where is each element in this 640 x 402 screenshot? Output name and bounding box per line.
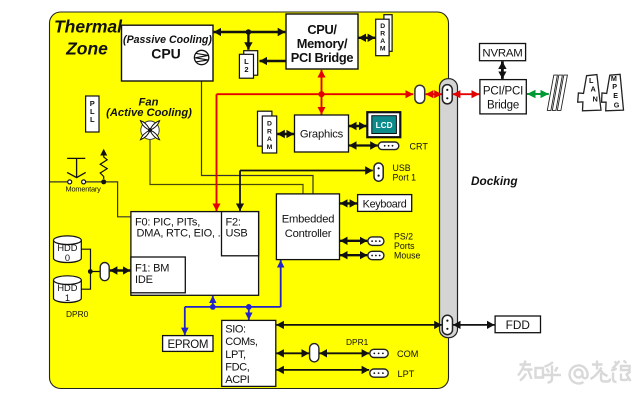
wire: blue down to SIO xyxy=(248,307,250,320)
svg-text:A: A xyxy=(267,136,272,143)
svg-text:DMA, RTC, EIO, ..: DMA, RTC, EIO, .. xyxy=(137,228,224,240)
LCD panel xyxy=(367,112,400,137)
wire: EC to PS/2 ports xyxy=(340,240,367,242)
DPR1 connector capsule xyxy=(310,344,319,362)
svg-text:PCI Bridge: PCI Bridge xyxy=(291,50,354,65)
thermal zone title xyxy=(54,17,123,59)
svg-text:Thermal: Thermal xyxy=(54,17,123,37)
wire: NVRAM to PCI/PCI bridge xyxy=(501,61,504,79)
wire: fan to embedded controller xyxy=(150,140,303,194)
wire: CPU to CPU/Memory bridge xyxy=(214,31,286,33)
fan symbol xyxy=(140,121,159,140)
svg-text:DPR0: DPR0 xyxy=(66,309,89,319)
wire: F2 to USB port xyxy=(239,171,241,211)
wire: blue F0 to ISA bus xyxy=(212,296,214,307)
svg-text:LPT,: LPT, xyxy=(225,349,246,361)
wire: EC to keyboard xyxy=(340,202,357,204)
wire: momentary switch to F0 xyxy=(50,182,130,217)
svg-text:Controller: Controller xyxy=(285,228,332,240)
wire: green PCI/PCI to slots xyxy=(527,93,549,95)
HDD 0 cylinder xyxy=(54,236,82,263)
node: switch junction xyxy=(101,179,106,184)
svg-text:D: D xyxy=(380,23,385,30)
CRT connector xyxy=(378,142,399,150)
svg-text:A: A xyxy=(591,84,597,93)
F0 fixed features box xyxy=(131,212,259,296)
svg-text:Mouse: Mouse xyxy=(394,251,421,261)
wire: DRAM to graphics xyxy=(277,133,294,135)
wire: DPR0 to F1 xyxy=(110,269,131,271)
wire: blue up to EC xyxy=(280,260,282,307)
svg-text:Bridge: Bridge xyxy=(487,99,519,111)
svg-text:PS/2: PS/2 xyxy=(394,231,413,241)
EPROM box xyxy=(163,336,213,352)
wire: red horizontal PCI bus xyxy=(217,93,414,95)
wire: HDD bus xyxy=(81,249,100,289)
wire: blue down to EPROM xyxy=(184,307,186,335)
red PCI oval connector xyxy=(415,85,425,103)
docking capsule bottom xyxy=(442,315,452,334)
wire: SIO to LPT xyxy=(276,369,369,371)
wire: graphics to CRT xyxy=(349,144,378,146)
node: red PCI junction xyxy=(318,91,324,97)
wire: EC to mouse xyxy=(340,254,367,256)
node: blue junction right xyxy=(246,304,252,310)
svg-text:FDC,: FDC, xyxy=(225,362,249,374)
svg-text:HDD: HDD xyxy=(57,243,77,253)
PCI/PCI bridge box xyxy=(480,80,526,114)
PS/2 label xyxy=(394,231,415,251)
USB port connector xyxy=(374,163,383,181)
NVRAM box xyxy=(480,44,526,61)
svg-text:PCI/PCI: PCI/PCI xyxy=(483,86,523,98)
thermal zone boundary xyxy=(50,12,449,389)
wire: red docking to PCI/PCI bridge xyxy=(453,93,480,95)
svg-text:ACPI: ACPI xyxy=(225,374,249,386)
wire: red bridge to graphics xyxy=(321,70,323,115)
USB port label xyxy=(393,163,417,183)
svg-text:M: M xyxy=(267,144,273,151)
svg-text:(Passive Cooling): (Passive Cooling) xyxy=(123,34,212,46)
svg-text:A: A xyxy=(380,38,385,45)
PLL box xyxy=(86,96,99,132)
wire: blue ISA bus horizontal xyxy=(185,306,281,308)
svg-text:(Active Cooling): (Active Cooling) xyxy=(106,107,192,119)
wire: CPU/Memory bridge to L2 xyxy=(260,60,286,62)
system DRAM boxes xyxy=(376,15,392,56)
svg-text:CRT: CRT xyxy=(410,141,429,151)
svg-text:D: D xyxy=(267,121,272,128)
svg-text:Keyboard: Keyboard xyxy=(363,198,407,210)
svg-text:Ports: Ports xyxy=(394,241,415,251)
wire: red down to F0 xyxy=(216,94,218,211)
PCI slots xyxy=(547,75,567,110)
svg-text:R: R xyxy=(380,31,385,38)
svg-text:NVRAM: NVRAM xyxy=(482,48,522,60)
svg-text:USB: USB xyxy=(226,228,248,240)
wire: graphics to LCD xyxy=(349,125,367,127)
svg-text:2: 2 xyxy=(244,65,248,74)
CPU/Memory/PCI bridge box xyxy=(286,14,358,69)
docking capsule top xyxy=(442,85,452,104)
svg-text:M: M xyxy=(380,46,386,53)
DPR0 connector capsule xyxy=(100,263,109,281)
svg-text:LCD: LCD xyxy=(376,121,393,130)
svg-text:SIO:: SIO: xyxy=(225,323,246,335)
F1 IDE box xyxy=(131,257,185,293)
svg-text:P: P xyxy=(612,82,617,91)
svg-text:Port 1: Port 1 xyxy=(393,173,417,183)
L2 cache boxes xyxy=(239,51,257,78)
MPEG card xyxy=(602,74,624,111)
svg-text:R: R xyxy=(267,129,272,136)
wire: SIO to DPR1 xyxy=(276,352,309,354)
graphics box xyxy=(295,115,349,152)
svg-text:CPU: CPU xyxy=(151,46,181,62)
SIO box xyxy=(222,320,276,386)
svg-text:Graphics: Graphics xyxy=(300,129,344,141)
PS/2 connector xyxy=(368,237,384,246)
svg-text:Zone: Zone xyxy=(65,39,108,59)
svg-text:Momentary: Momentary xyxy=(66,184,102,193)
wire: SIO to FDD via docking xyxy=(276,324,442,326)
svg-text:L: L xyxy=(90,115,95,124)
graphics DRAM boxes xyxy=(258,111,277,153)
svg-text:LPT: LPT xyxy=(398,369,415,379)
node: HDD junction xyxy=(88,269,93,274)
svg-text:Embedded: Embedded xyxy=(282,214,335,226)
svg-text:DPR1: DPR1 xyxy=(346,337,369,347)
svg-text:EPROM: EPROM xyxy=(167,339,208,351)
docking connector bar xyxy=(440,79,458,338)
wire: bus node down to L2 xyxy=(247,32,249,50)
node on CPU bus xyxy=(246,29,252,35)
wire: red oval to docking capsule xyxy=(426,93,442,95)
thermal sensor symbol xyxy=(194,50,208,64)
F2 USB box xyxy=(222,212,259,256)
cpu box xyxy=(122,25,214,81)
svg-text:COM: COM xyxy=(397,349,418,359)
wire: DPR1 to COM xyxy=(320,352,370,354)
wake zigzag arrow xyxy=(100,149,107,179)
momentary switch xyxy=(66,158,102,193)
svg-text:USB: USB xyxy=(393,163,411,173)
wire: bridge to DRAM xyxy=(358,37,375,39)
svg-text:FDD: FDD xyxy=(506,318,530,332)
svg-text:N: N xyxy=(593,94,598,103)
svg-text:CPU/: CPU/ xyxy=(307,22,337,37)
svg-text:G: G xyxy=(614,100,620,109)
HDD 1 cylinder xyxy=(54,276,82,303)
LAN card xyxy=(578,75,601,111)
node: blue junction left xyxy=(210,304,216,310)
svg-text:Docking: Docking xyxy=(471,174,518,188)
svg-text:1: 1 xyxy=(65,293,70,303)
svg-text:COMs,: COMs, xyxy=(225,336,258,348)
keyboard box xyxy=(358,195,412,212)
LPT connector xyxy=(370,369,388,377)
FDD box xyxy=(495,316,540,333)
mouse connector xyxy=(368,251,384,259)
fan label xyxy=(106,97,192,120)
embedded controller box xyxy=(276,194,339,260)
wire: CPU thermal sensor to embedded controller xyxy=(202,65,314,194)
watermark zhihu xyxy=(518,361,631,384)
svg-text:Memory/: Memory/ xyxy=(297,36,348,51)
svg-text:IDE: IDE xyxy=(135,274,153,286)
svg-text:0: 0 xyxy=(65,253,70,263)
svg-text:F1: BM: F1: BM xyxy=(135,262,169,274)
wire: docking to FDD xyxy=(453,324,495,326)
COM connector xyxy=(370,349,388,357)
svg-text:HDD: HDD xyxy=(57,283,77,293)
svg-text:E: E xyxy=(613,91,618,100)
